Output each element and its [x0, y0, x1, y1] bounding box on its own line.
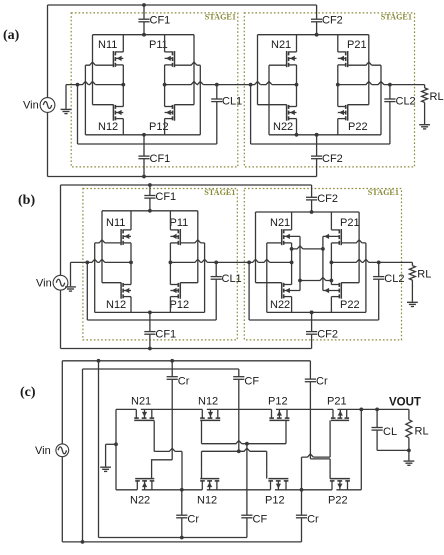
wire RL to ground (b): [411, 280, 413, 302]
wire stage2 P column mid: [337, 65, 339, 107]
transistor P11 (panel b): [179, 229, 181, 245]
wire horiz2 to P12 lower gate (c): [266, 451, 268, 467]
transistor N12 upper (panel c): [200, 417, 205, 419]
svg-text:N11: N11: [98, 39, 117, 51]
svg-text:P21: P21: [327, 396, 347, 408]
transistor N21 (panel a): [286, 51, 288, 67]
svg-text:P22: P22: [348, 121, 368, 133]
wire stage1 input down-wire: [77, 85, 79, 144]
wire N12 source to bottom rail (b): [130, 297, 132, 313]
transistor P22 (panel b): [340, 283, 342, 299]
wire stage1 bridge top rail: [93, 34, 195, 36]
wire stage1 mid-left rail: [66, 82, 123, 85]
wire P12 source to bottom rail: [164, 119, 166, 135]
svg-text:(c): (c): [20, 385, 36, 400]
svg-text:STAGE1: STAGE1: [381, 12, 412, 21]
svg-text:VOUT: VOUT: [389, 397, 421, 409]
capacitor CL2 (panel a): [389, 85, 391, 99]
svg-text:CF2: CF2: [317, 329, 338, 341]
svg-text:CF1: CF1: [155, 329, 176, 341]
wire P21 drain to top rail: [337, 35, 339, 52]
resistor RL (panel a): [424, 85, 426, 88]
ground under RL (panel b): [407, 301, 418, 303]
capacitor Cr bottom-right (panel c): [296, 514, 307, 516]
capacitor CL2 (panel b): [378, 262, 380, 276]
capacitor CL1 (panel b): [215, 262, 217, 276]
transistor N21 (panel b): [281, 229, 283, 245]
transistor N11 (panel a): [112, 51, 114, 67]
svg-text:CF1: CF1: [150, 153, 171, 165]
svg-text:N21: N21: [271, 39, 291, 51]
svg-text:Cr: Cr: [316, 375, 328, 387]
capacitor CF bottom (panel c): [241, 514, 252, 516]
svg-text:CL2: CL2: [384, 273, 404, 285]
wire CL/RL bottom (c): [377, 449, 409, 451]
stage box STAGE1 (right, panel a): [244, 13, 414, 167]
wire Vin+ to top rail (b): [60, 185, 62, 275]
capacitor Cr top-right (panel c): [309, 361, 311, 379]
wire CF top-wire down (c): [238, 379, 240, 451]
wire stage1 bridge bottom rail (b): [95, 311, 205, 313]
svg-text:N12: N12: [197, 495, 217, 507]
wire stage2 input down-wire: [250, 85, 252, 144]
capacitor CF1 bottom (panel b): [149, 312, 151, 331]
wire N21 gate wire to bottom rail: [269, 64, 287, 66]
wire stage1 input to CL1 bottom rail (b): [87, 319, 216, 321]
wire stage2 bridge top rail: [258, 34, 369, 36]
svg-text:N22: N22: [270, 299, 290, 311]
wire N12 gate to top rail: [92, 35, 94, 105]
wire stage1 output rail to stage2 (b): [170, 259, 291, 262]
wire input node vertical (c): [115, 409, 117, 489]
wire P11 drain to top rail: [164, 35, 166, 52]
transistor N22 (panel b): [281, 283, 283, 299]
wire Vin- down (c): [61, 457, 63, 542]
wire P21 drain to top rail (b): [330, 212, 332, 230]
svg-text:STAGE1: STAGE1: [368, 188, 399, 197]
wire bottom row rail segments (c): [116, 489, 361, 491]
wire stage1 bridge top rail (b): [102, 210, 198, 212]
svg-text:CF1: CF1: [155, 191, 176, 203]
wire output right vertical (c): [360, 409, 362, 489]
wire Vin+ to top rail: [47, 5, 49, 98]
wire stage2 output rail: [338, 82, 425, 85]
ground at input (panel c): [100, 466, 111, 468]
wire P12 gate to top rail: [175, 104, 195, 106]
wire N21 gate wire (b): [267, 242, 282, 244]
wire CF bottom riser (c): [246, 444, 248, 516]
svg-text:CL1: CL1: [222, 273, 242, 285]
wire P22 gate to top rail: [348, 104, 369, 106]
wire N12 gate tap (b): [102, 282, 121, 284]
capacitor Cr top-left (panel c): [171, 361, 173, 377]
svg-text:STAGE1: STAGE1: [204, 188, 235, 197]
wire stage2 P column mid (b): [330, 243, 332, 285]
wire P12 lower gate rise (c): [266, 467, 268, 478]
wire N22 gate to top rail (b): [255, 212, 257, 283]
transistor P12 lower (panel c): [268, 480, 273, 482]
ground at output (panel c): [404, 460, 415, 462]
wire P22 gate rise (c): [329, 467, 331, 478]
wire N21 drain to top rail: [296, 35, 298, 52]
stage box STAGE1 (left, panel b): [83, 189, 237, 340]
stage box STAGE1 (left, panel a): [71, 13, 238, 167]
wire stage1 input down-wire (b): [86, 262, 88, 320]
wire N11 drain to top rail (b): [130, 211, 132, 230]
wire second top rail (c): [83, 368, 239, 370]
wire gate line B (c): [310, 458, 330, 460]
wire P12 source to bottom rail (b): [169, 297, 171, 313]
svg-text:Vin: Vin: [35, 445, 51, 457]
svg-text:N12: N12: [198, 396, 218, 408]
wire N12 gate to top rail (b): [101, 211, 103, 283]
transistor N12 (panel b): [120, 283, 122, 299]
wire Cr1 to N22 gate (c): [152, 460, 173, 479]
transistor N11 (panel b): [120, 229, 122, 245]
wire N22 gate to top rail: [257, 35, 259, 105]
wire top row rail segments (c): [116, 408, 409, 410]
svg-text:RL: RL: [415, 426, 429, 438]
wire stage2 N column mid: [296, 65, 298, 107]
transistor P21 (panel b): [340, 229, 342, 245]
svg-text:Vin: Vin: [36, 277, 52, 289]
wire stage2 output rail (b): [331, 259, 412, 262]
wire P12 upper gate drop (c): [285, 420, 287, 443]
wire N21 gate link (c): [154, 448, 182, 451]
wire bulk cross wire A (b): [292, 246, 323, 249]
wire P11 gate wire to bottom rail: [175, 62, 201, 65]
transistor P22 (panel a): [347, 105, 349, 121]
transistor N21 (panel c): [134, 417, 139, 419]
wire stage1 mid-left rail (b): [71, 259, 132, 262]
wire N22 gate tap (b): [256, 282, 282, 284]
wire to output ground (c): [408, 450, 410, 460]
wire stage2 bridge top rail (b): [256, 211, 360, 213]
svg-text:CL1: CL1: [222, 95, 242, 107]
transistor P21 (panel a): [347, 51, 349, 67]
wire gate link horiz2 (c): [202, 448, 267, 451]
svg-text:P12: P12: [268, 396, 288, 408]
wire Vin- bottom rail: [47, 112, 49, 176]
wire N21 drain to top rail (b): [291, 212, 293, 230]
wire P21 gate wire to bottom rail: [348, 62, 381, 65]
svg-text:RL: RL: [417, 269, 431, 281]
svg-text:P12: P12: [149, 121, 169, 133]
wire input node to ground (c): [106, 443, 116, 445]
svg-text:P12: P12: [170, 299, 190, 311]
wire RL to ground: [424, 102, 426, 124]
wire N11 gate wire (b): [95, 240, 121, 243]
svg-text:N11: N11: [106, 217, 125, 229]
capacitor CF top (panel c): [238, 369, 240, 377]
transistor P12 (panel b): [179, 283, 181, 299]
transistor N12 (panel a): [112, 105, 114, 121]
svg-text:CF1: CF1: [150, 15, 171, 27]
svg-text:P12: P12: [265, 495, 285, 507]
transistor N22 (panel a): [286, 105, 288, 121]
svg-text:CL: CL: [383, 426, 397, 438]
svg-text:Cr: Cr: [307, 514, 319, 526]
transistor N22 (panel c): [135, 480, 140, 482]
wire stage2 input to CL2 bottom rail (b): [249, 319, 379, 321]
wire P22 source to bottom rail: [337, 119, 339, 135]
svg-text:RL: RL: [430, 91, 444, 103]
capacitor CF2 bottom (panel b): [311, 312, 313, 331]
wire Vin+ up (c): [61, 361, 63, 444]
wire P22 source to bottom rail (b): [330, 297, 332, 313]
wire horiz2 to N12 lower gate (c): [201, 451, 203, 467]
transistor P11 (panel a): [174, 51, 176, 67]
wire N column mid (b): [130, 243, 132, 285]
transistor N12 lower (panel c): [200, 480, 205, 482]
svg-text:P21: P21: [347, 39, 367, 51]
svg-text:CF2: CF2: [322, 15, 343, 27]
resistor RL (panel c): [408, 409, 410, 419]
wire N12 source to bottom rail: [122, 119, 124, 135]
wire Cr2 top-wire down (c): [309, 382, 311, 459]
wire inner bottom rail (c): [99, 537, 247, 539]
wire N12 upper gate drop (c): [201, 420, 203, 443]
svg-text:N21: N21: [131, 396, 151, 408]
wire N12 lower gate rise (c): [201, 467, 203, 478]
wire stage2 bridge bottom rail (b): [267, 311, 366, 313]
svg-text:CF2: CF2: [317, 193, 338, 205]
stage box STAGE1 (right, panel b): [244, 189, 401, 340]
wire line B to P22 gate (c): [329, 459, 331, 468]
svg-text:P11: P11: [170, 217, 189, 229]
wire N21 gate drop (c): [153, 420, 155, 451]
wire P12 gate to top rail (b): [180, 282, 198, 284]
wire gate line A (c): [302, 454, 331, 457]
svg-text:N12: N12: [98, 121, 118, 133]
wire N11 gate wire to bottom rail: [85, 62, 113, 65]
svg-text:(a): (a): [3, 28, 20, 43]
wire N column mid (N11 source / N12 drain): [122, 65, 124, 107]
wire stage2 input down-wire (b): [248, 262, 250, 320]
svg-text:Vin: Vin: [23, 100, 39, 112]
capacitor CF2 top (panel b): [311, 185, 313, 197]
svg-text:Cr: Cr: [178, 375, 190, 387]
svg-text:N21: N21: [270, 217, 290, 229]
ground at stage1 input (panel a): [65, 85, 67, 109]
wire N bulk cross vertical (b): [299, 236, 301, 290]
resistor RL (panel b): [411, 262, 413, 265]
svg-text:Cr: Cr: [187, 514, 199, 526]
capacitor CF1 bottom (panel a): [143, 135, 145, 156]
wire P11 drain to top rail (b): [169, 211, 171, 230]
svg-text:P21: P21: [340, 217, 360, 229]
svg-text:STAGE1: STAGE1: [205, 12, 236, 21]
wire P column mid (P11 source / P12 drain): [164, 65, 166, 107]
svg-text:CF2: CF2: [322, 153, 343, 165]
svg-text:CF: CF: [244, 375, 259, 387]
wire P column mid (b): [169, 243, 171, 285]
wire stage2 input to CL2 bottom rail: [251, 143, 390, 145]
transistor P12 upper (panel c): [269, 417, 274, 419]
wire stage1 bridge bottom rail: [85, 134, 200, 136]
svg-text:P22: P22: [340, 299, 360, 311]
svg-text:N12: N12: [106, 299, 126, 311]
capacitor CL (panel c): [376, 409, 378, 427]
wire P21 gate drop (c): [329, 420, 331, 457]
capacitor CF1 top (panel a): [143, 5, 145, 19]
svg-text:P22: P22: [328, 495, 348, 507]
ground under RL (panel a): [419, 124, 430, 126]
wire stage1 output rail to stage2: [165, 82, 297, 85]
wire P11 gate wire (b): [180, 240, 204, 243]
capacitor CL1 (panel a): [216, 85, 218, 99]
ground at stage1 input (panel b): [70, 262, 72, 286]
wire N12 gate tap: [93, 104, 114, 106]
svg-text:N22: N22: [273, 121, 293, 133]
capacitor CF1 top (panel b): [149, 185, 151, 196]
wire outer bottom rail (c): [62, 541, 301, 543]
wire line A down to Cr2 bottom (c): [301, 457, 303, 515]
capacitor CF2 bottom (panel a): [316, 135, 318, 156]
svg-text:CF: CF: [253, 514, 268, 526]
wire N11 drain to top rail: [122, 35, 124, 52]
transistor P12 (panel a): [174, 105, 176, 121]
wire N22 source to bottom rail (b): [291, 297, 293, 313]
svg-text:CL2: CL2: [396, 95, 416, 107]
wire bulk cross wire B (b): [300, 277, 331, 280]
wire top rail (Vin+ to CF2): [48, 4, 317, 6]
capacitor Cr bottom-left (panel c): [181, 490, 183, 515]
wire stage2 N column mid (b): [291, 243, 293, 285]
capacitor CF2 top (panel a): [316, 5, 318, 19]
transistor P22 (panel c): [330, 480, 335, 482]
wire P22 gate to top rail (b): [341, 282, 359, 284]
wire stage1 input to CL1 bottom rail: [78, 143, 217, 145]
wire Cr1 bottom plate down (c): [171, 379, 173, 460]
wire P21 gate wire (b): [341, 240, 366, 243]
wire P bulk cross vertical (b): [322, 236, 324, 290]
wire outer top rail (c): [62, 360, 310, 362]
transistor P21 (panel c): [331, 417, 336, 419]
wire Vin- bottom rail (b): [60, 290, 62, 348]
wire third left vertical (c): [98, 361, 100, 538]
wire N22 source to bottom rail: [296, 119, 298, 135]
wire gate link horiz1 (c): [202, 441, 287, 444]
wire N22 gate tap: [258, 104, 287, 106]
svg-text:N22: N22: [130, 495, 150, 507]
wire second left vertical (c): [82, 369, 84, 542]
wire top rail (b): [61, 184, 312, 186]
svg-text:(b): (b): [18, 193, 35, 208]
wire stage2 bridge bottom rail: [269, 134, 381, 136]
